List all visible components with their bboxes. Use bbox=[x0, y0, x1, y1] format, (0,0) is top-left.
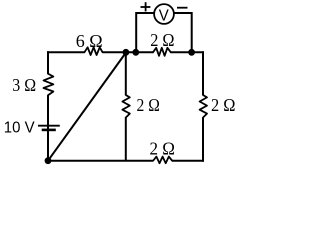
svg-text:2 Ω: 2 Ω bbox=[150, 30, 174, 50]
svg-text:2 Ω: 2 Ω bbox=[211, 95, 236, 115]
svg-text:6 Ω: 6 Ω bbox=[76, 31, 103, 51]
svg-text:V: V bbox=[159, 7, 169, 24]
svg-text:2 Ω: 2 Ω bbox=[150, 139, 176, 159]
svg-text:10 V: 10 V bbox=[4, 120, 35, 137]
svg-text:3 Ω: 3 Ω bbox=[12, 75, 36, 95]
svg-text:2 Ω: 2 Ω bbox=[137, 95, 160, 115]
